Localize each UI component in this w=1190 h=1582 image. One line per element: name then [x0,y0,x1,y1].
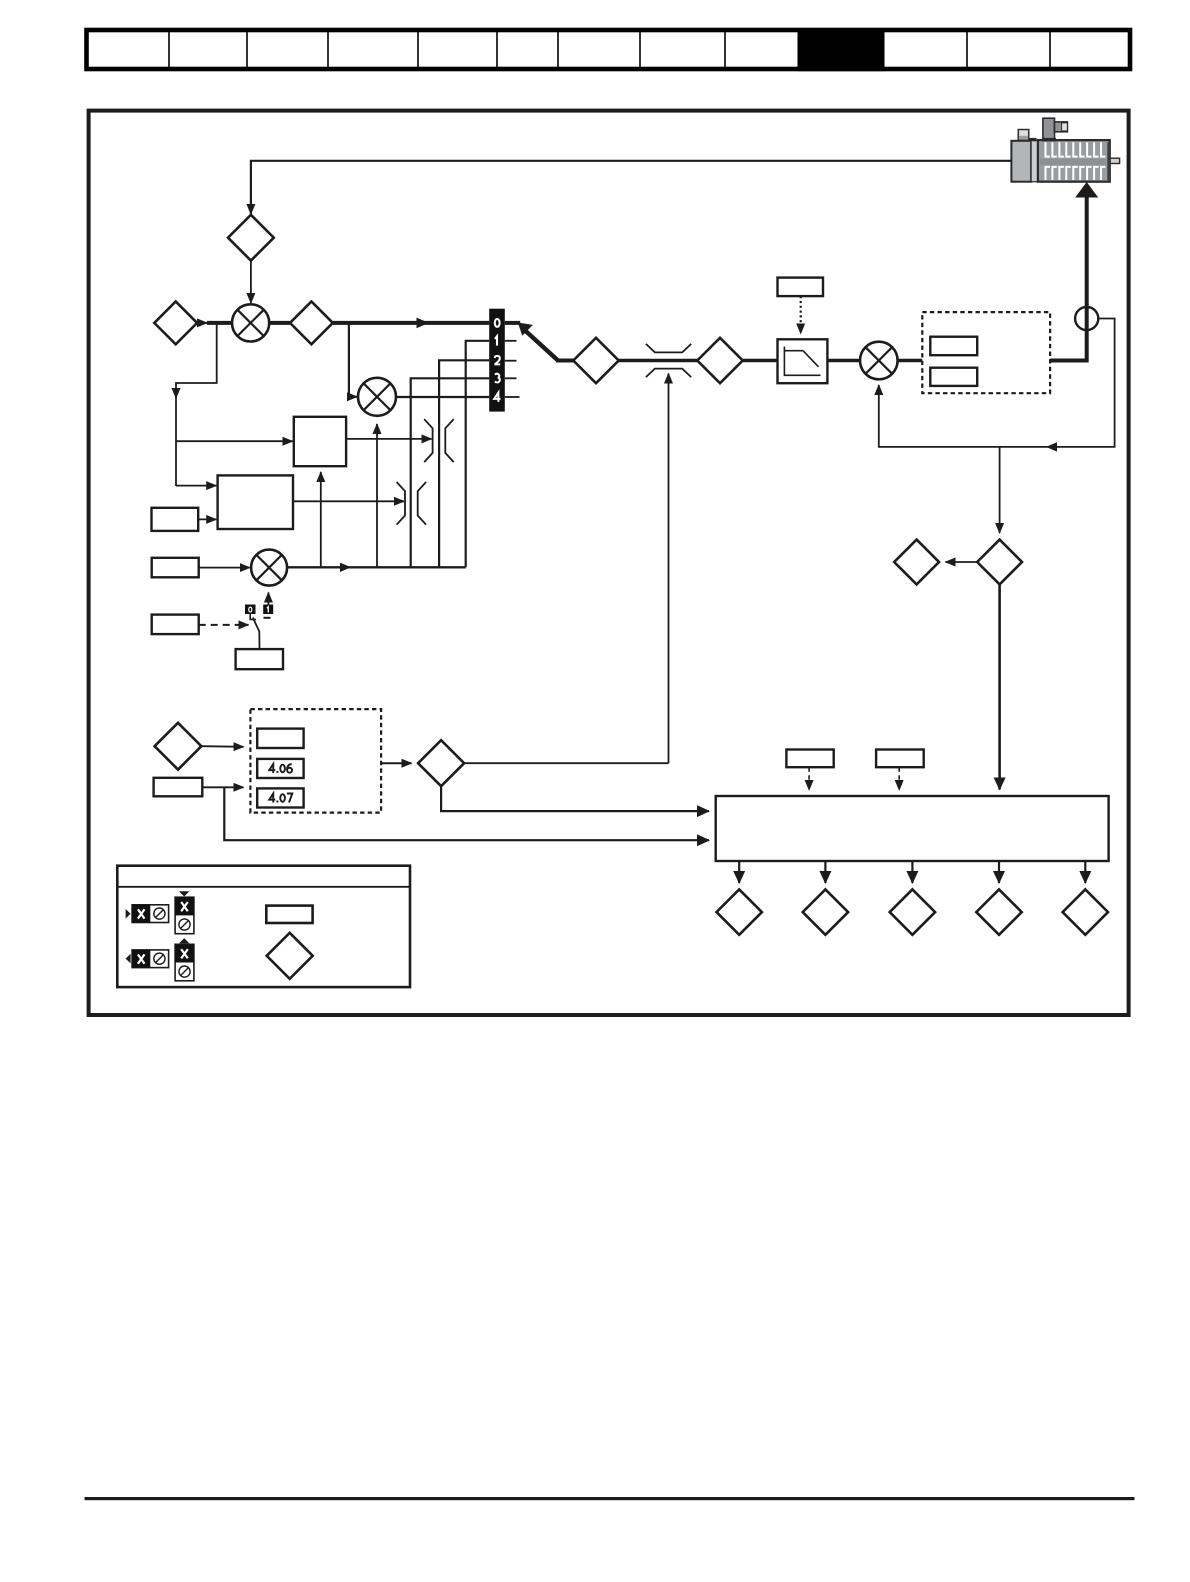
wire: branch down from main line to X2 [349,323,357,397]
wire: selector feed row 3 (through clamp C2) [411,378,490,567]
wire: override path up into clamp C3 [668,374,670,764]
wire: big block output 4 [998,861,1000,883]
header chapter tab table [87,30,1131,69]
selector wiper (position 0) [505,323,558,361]
header active tab (black cell) [798,28,885,71]
clamp C1 (limit brackets on row-2 wire) [424,419,454,462]
wire: big block output 2 [824,861,826,883]
wire: parameter box into dashed block and branch to big block [202,786,243,788]
block: upper function box [294,417,346,466]
wire: main thick line to selector input 0 [333,321,489,325]
motor M1 (servo motor icon, top right) [1011,118,1119,182]
parameter box (over big block, right) [876,750,924,768]
wire: dashed control to switch [199,624,249,626]
wire: X3 line up into X2 bottom [376,424,378,567]
wire: upper box output into clamp C1 [346,438,431,440]
wire: speed feedback from motor across top [251,161,1012,214]
parameter box (switch control) [152,615,199,635]
legend: input terminal marker [126,909,131,919]
switch terminals 0/1 (offset enable) [245,605,273,620]
wire: diamond into dashed block [201,745,243,748]
legend: read-only cell pair (vertical) [175,938,194,981]
wire: speed feedback loop down to X4 [879,319,1115,447]
parameter diamond (output 2) [803,889,848,934]
parameter diamond (left input) [154,302,197,345]
parameter box (filter time constant) [778,278,824,297]
wire: dashed block output to diamond [381,762,411,764]
wire: selector feed row 1 (from X3 line) [466,341,490,568]
wire: parameter box to X3 [199,567,250,569]
wire: feedback diamond down to big block [998,584,1001,789]
parameter diamond A (selected torque reference) [573,338,618,383]
parameter box (over big block, left) [786,750,833,768]
parameter diamond (after X1) [269,302,333,345]
wire: X4 to current controllers [898,359,923,363]
wire: X3 output bus [287,566,466,568]
switch lever [253,618,260,650]
wire: branch down from main line (left) [176,323,217,398]
parameter diamond (overload output) [418,740,464,786]
wire: dotted control to filter [800,296,802,333]
parameter box (below switch) [236,649,283,669]
legend key box [117,866,410,987]
multiplier X1 [207,304,269,341]
wire: overload diamond to clamp riser [464,762,668,764]
parameter diamond (output 4) [976,889,1021,934]
wire: branch into lower box [176,485,216,487]
wire: X2 output to selector row 4 [396,396,489,398]
wire: wiper output to diamond A [556,359,574,363]
parameter diamond (into overload block) [155,723,202,770]
legend: read-only cell pair (horizontal) [132,950,169,968]
wire: lower box output into clamp C2 [293,500,404,502]
wire: parameter box to lower box [198,518,216,520]
wire: switch terminal 1 up into X3 [267,593,269,606]
wire: dashed control into big block [808,767,810,790]
footer rule [85,1497,1135,1500]
diagram outer frame [89,111,1129,1015]
wire: diamond A to clamp C3 to diamond B [619,359,699,363]
block: lower function box [218,475,293,529]
parameter box (into lower box) [152,508,199,531]
wire: branch into upper box [176,440,293,442]
wire: to left feedback diamond [946,561,978,563]
multiplier X2 [358,378,396,416]
wire: current controllers to motor (thick) [1050,196,1087,361]
wire: dashed control into big block [898,767,900,790]
wire: diamond B to filter [743,359,778,363]
legend: read-write cell pair (horizontal) [132,905,169,923]
parameter diamond (output 5) [1063,889,1108,934]
wire: diamond to multiplier X1 [250,261,252,303]
filter block (current reference filter) [778,339,828,383]
parameter diamond B (final current reference) [697,338,742,383]
clamp C2 (limit brackets on row-3 wire) [397,482,427,525]
block: current limits / protection (big block) [716,796,1109,861]
dashed block: overload detection (4.06 / 4.07) [250,709,381,813]
parameter diamond (feedback display, left) [894,540,939,585]
wire: bottom input into upper box [320,472,322,567]
wire: filter to X4 [827,359,859,363]
legend: output terminal marker [126,954,131,964]
multiplier X4 [860,342,898,380]
legend: sample parameter box [266,906,312,923]
wire: big block output 5 [1084,861,1086,883]
legend: sample parameter diamond [267,933,313,979]
wire: selector feed row 2 (through clamp C1) [439,360,489,567]
parameter diamond 1.39 (feedback reference, top) [228,215,274,261]
wire: feedback branch down to diamond pair [999,447,1001,533]
clamp C3 (current limit brackets on main wire) [646,344,691,377]
wire: left diamond into main line [197,322,207,324]
parameter box (left, below diamond) [154,778,203,797]
wire: overload diamond down into big block [441,786,709,811]
torque mode selector 4.11 (black column with positions 0-4) [489,309,519,412]
parameter diamond (output 3) [890,889,935,934]
parameter diamond (speed feedback, right) [977,540,1022,585]
wire: big block output 1 [738,861,740,883]
speed feedback pick-off circle [1075,307,1098,330]
wire: big block output 3 [911,861,913,883]
multiplier X3 [251,550,287,586]
parameter diamond (output 1) [717,889,762,934]
parameter box (into X3) [152,558,199,578]
dashed block: current controllers [922,312,1050,393]
legend: read-write cell pair (vertical) [175,891,194,934]
